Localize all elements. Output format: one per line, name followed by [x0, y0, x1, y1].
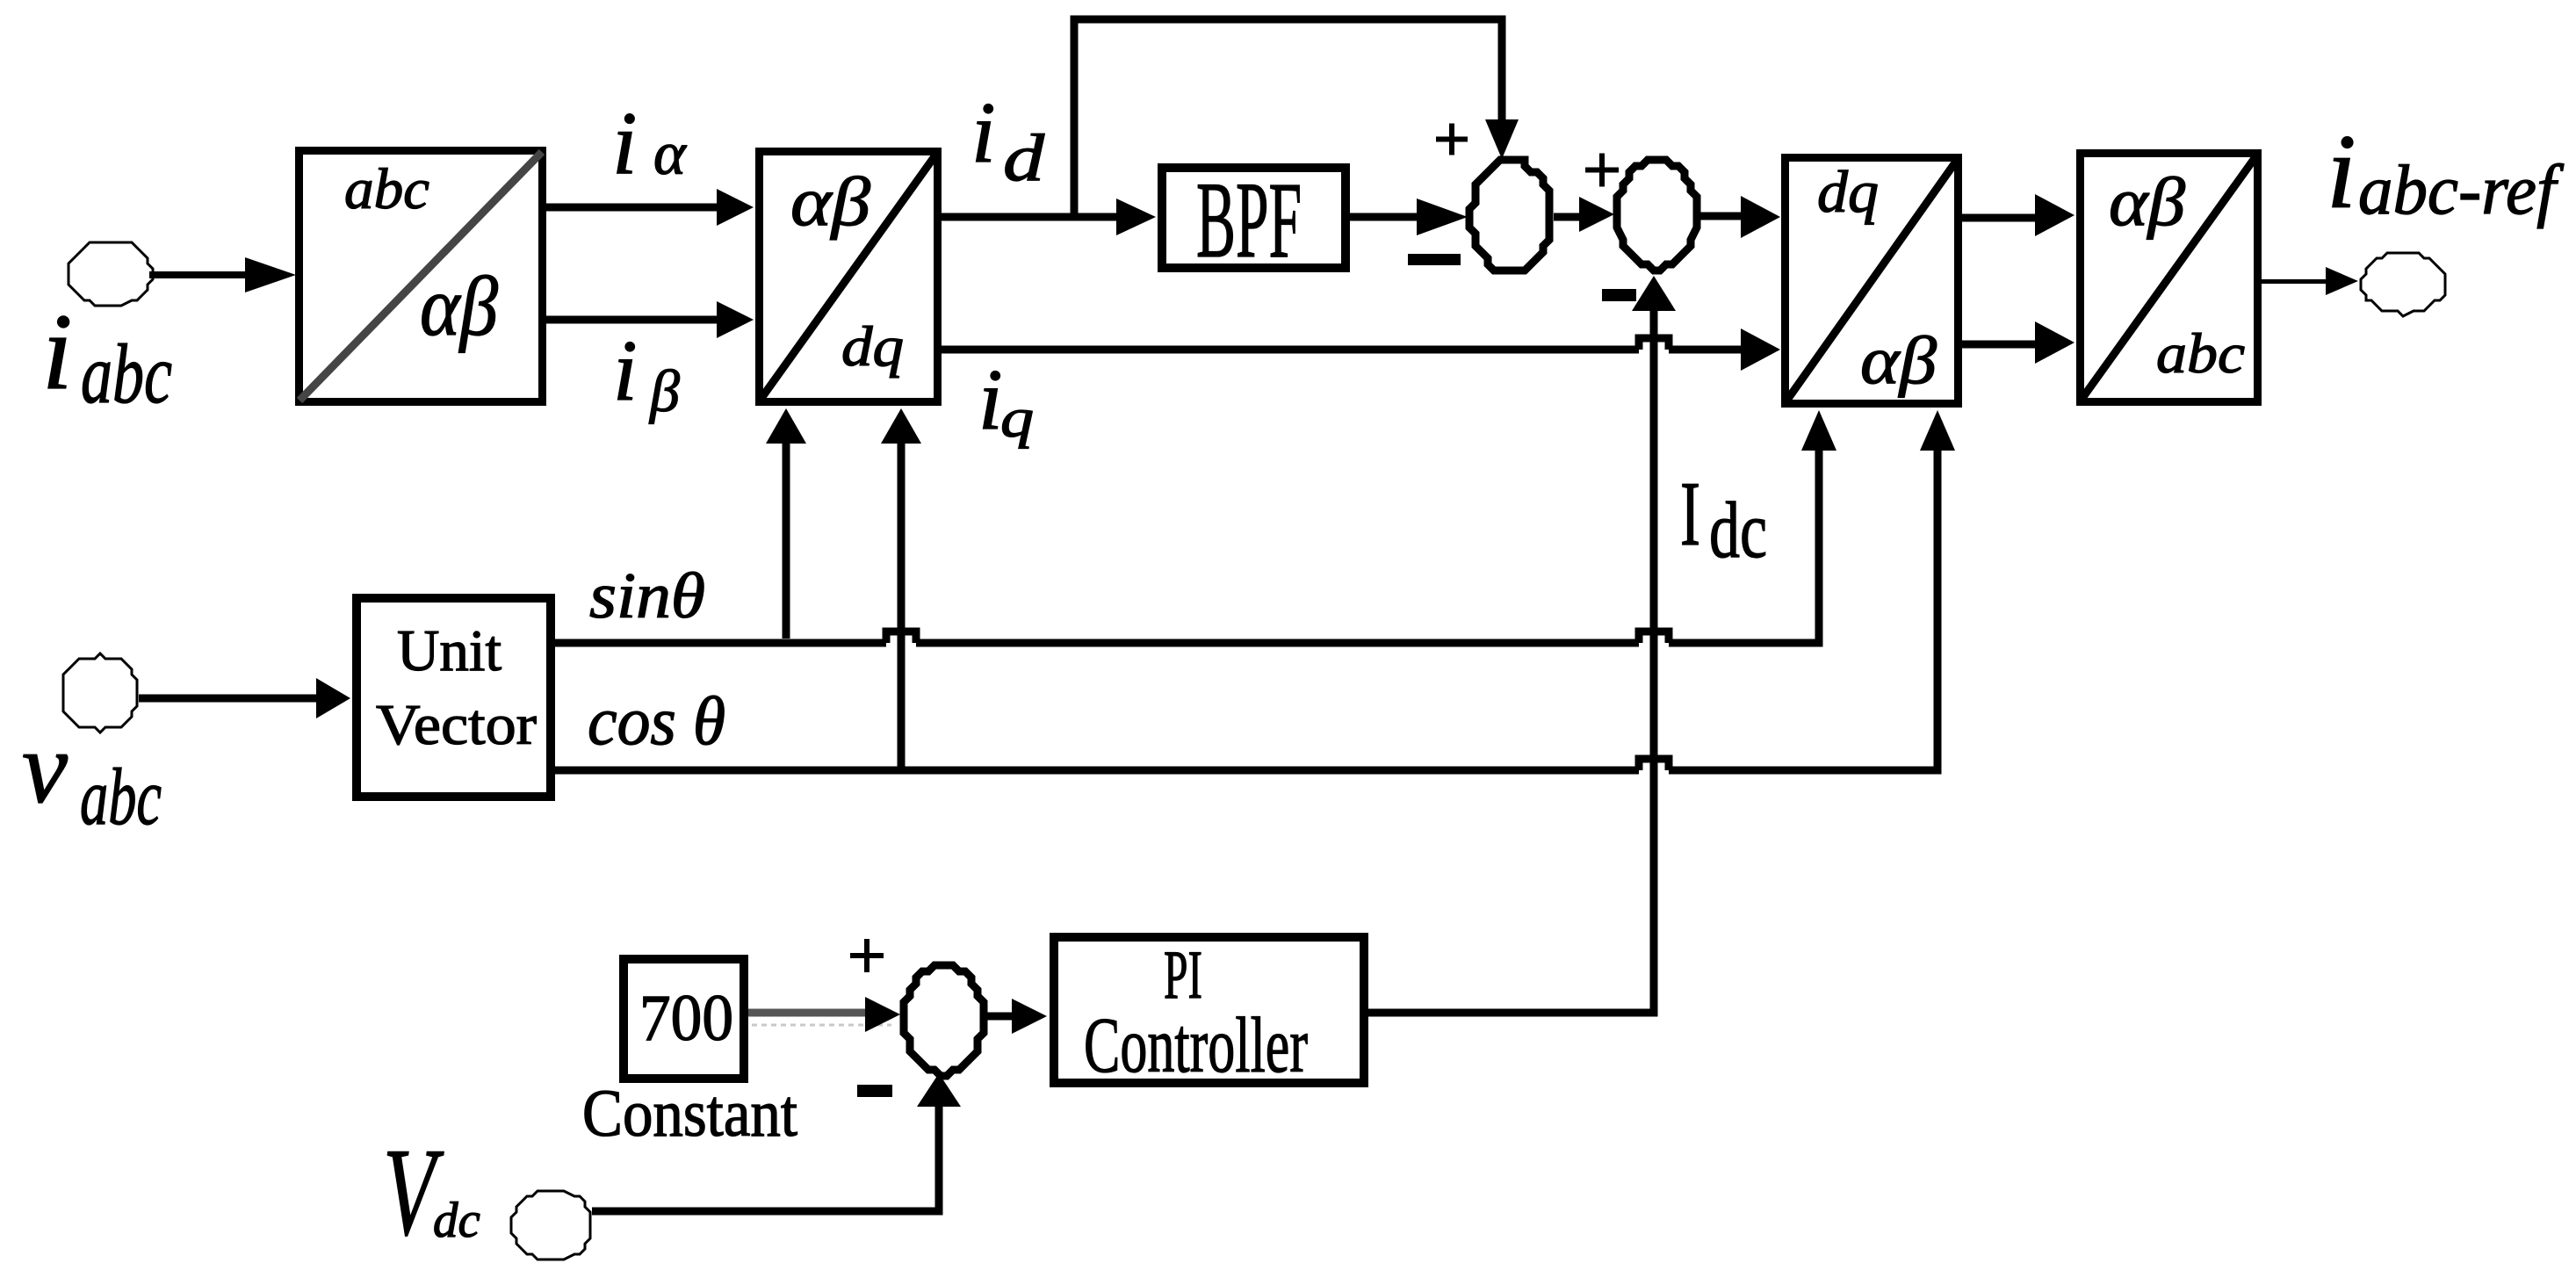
svg-text:dq: dq: [841, 315, 904, 379]
wire V_dc to sum3: [592, 1107, 939, 1211]
svg-text:Unit: Unit: [397, 618, 502, 683]
svg-text:dc: dc: [433, 1193, 480, 1248]
output terminal i_abc-ref: [2361, 253, 2445, 316]
wire sum3 to PI controller: [985, 1013, 1017, 1021]
svg-text:abc: abc: [2156, 322, 2245, 386]
arrowhead cos riser into ab/dq: [881, 408, 921, 444]
block BPF: [1162, 168, 1346, 268]
svg-text:i: i: [612, 94, 637, 193]
wire 700 to sum3 (gray): [748, 1009, 871, 1017]
arrowhead into PI controller: [1012, 999, 1047, 1034]
arrowhead cos riser into dq/ab: [1920, 410, 1955, 451]
faint dotted artifact line: [752, 1024, 891, 1027]
crossover hop i_q over Idc: [1639, 338, 1669, 350]
svg-text:i: i: [971, 85, 996, 181]
input terminal V_dc: [511, 1191, 590, 1259]
wire BPF to sum1: [1350, 213, 1423, 221]
arrowhead into sum1 left: [1417, 198, 1468, 235]
wire v_abc terminal to Unit Vector: [139, 695, 325, 703]
arrowhead into BPF: [1116, 198, 1156, 235]
arrowhead V_dc up into sum3: [917, 1073, 961, 1107]
wire i_alpha: [546, 204, 729, 212]
plus sign sum1: [1436, 137, 1468, 142]
arrowhead i_q into dq/ab bottom: [1741, 328, 1780, 371]
arrowhead into sum3 left: [865, 997, 900, 1032]
arrowhead into dq/ab top: [1741, 196, 1780, 238]
summing junction sum2: [1617, 160, 1697, 271]
block alphabeta->dq transform: [760, 152, 938, 402]
input terminal i_abc: [69, 242, 153, 306]
wire cos theta: [555, 767, 1639, 775]
wire ab/abc to output terminal: [2262, 279, 2332, 284]
crossover hop cos over Idc: [1639, 759, 1669, 770]
svg-text:abc: abc: [80, 752, 162, 841]
wire i_q long line: [942, 346, 1639, 354]
diagonal of abc->alphabeta (gray): [299, 152, 542, 401]
svg-text:αβ: αβ: [1860, 322, 1937, 398]
svg-text:α: α: [653, 120, 687, 188]
crossover hop sin over cos riser: [886, 631, 916, 643]
wire sum2 to dq/ab block: [1700, 213, 1748, 220]
svg-text:d: d: [1003, 121, 1045, 195]
svg-text:i: i: [42, 292, 72, 412]
svg-text:αβ: αβ: [2109, 163, 2185, 240]
arrowhead into output terminal: [2326, 267, 2358, 295]
minus sign sum3: [857, 1085, 892, 1097]
block alphabeta->abc transform: [2081, 154, 2258, 402]
svg-text:αβ: αβ: [790, 164, 871, 241]
arrowhead sin riser into dq/ab: [1801, 410, 1836, 451]
arrowhead Idc up into sum2: [1632, 276, 1676, 311]
arrowhead i_beta: [717, 301, 754, 338]
svg-text:abc: abc: [81, 327, 172, 421]
block abc->alphabeta transform: [299, 151, 543, 402]
svg-text:abc: abc: [344, 157, 429, 221]
svg-text:dq: dq: [1817, 158, 1879, 225]
diagonal of alphabeta->abc: [2081, 155, 2257, 401]
svg-text:700: 700: [639, 982, 733, 1055]
wire i_beta: [546, 316, 729, 324]
wire sin riser to ab/dq block: [783, 439, 790, 639]
wire cos riser to ab/dq block: [898, 439, 906, 767]
wire PI output / Idc: [1368, 307, 1654, 1013]
summing junction sum1: [1469, 160, 1549, 271]
plus sign sum3: [850, 953, 884, 958]
arrowhead i_alpha: [717, 189, 754, 226]
svg-text:PI: PI: [1164, 936, 1202, 1013]
arrowhead into abc/ab block: [245, 257, 296, 292]
wire i_abc terminal to abc/ab block: [149, 271, 255, 278]
arrowhead feedback down into sum1: [1485, 119, 1519, 159]
input terminal v_abc: [63, 653, 137, 733]
wire i_d feedback loop: [1074, 19, 1502, 220]
minus sign sum2: [1602, 289, 1636, 301]
crossover hop sin over Idc: [1639, 631, 1669, 643]
svg-text:v: v: [22, 711, 68, 825]
svg-text:BPF: BPF: [1196, 160, 1302, 280]
diagonal of alphabeta->dq: [760, 153, 937, 401]
wire dq/ab to ab/abc bottom: [1962, 341, 2046, 349]
wire i_d output: [942, 213, 1129, 221]
svg-text:i: i: [2327, 113, 2356, 231]
diagonal of dq->alphabeta: [1786, 159, 1958, 402]
block Unit Vector: [357, 598, 551, 797]
plus sign sum2: [1585, 168, 1619, 173]
svg-text:Vector: Vector: [376, 693, 537, 757]
svg-text:Controller: Controller: [1084, 1002, 1308, 1089]
arrowhead into ab/abc bottom: [2035, 321, 2075, 364]
svg-text:αβ: αβ: [420, 259, 498, 353]
block dq->alphabeta transform: [1786, 158, 1959, 404]
block constant 700: [624, 959, 744, 1079]
minus sign sum1: [1408, 254, 1461, 265]
arrowhead into Unit Vector: [316, 678, 350, 718]
svg-text:sinθ: sinθ: [589, 560, 705, 632]
svg-text:Constant: Constant: [582, 1077, 797, 1151]
svg-text:i: i: [978, 352, 1003, 448]
svg-text:q: q: [1000, 387, 1034, 449]
svg-text:dc: dc: [1709, 486, 1767, 574]
arrowhead into sum2 left: [1579, 197, 1614, 232]
svg-text:i: i: [613, 323, 638, 419]
wire dq/ab to ab/abc top: [1962, 214, 2046, 222]
wire sum1 to sum2: [1554, 213, 1583, 221]
arrowhead into ab/abc top: [2035, 194, 2075, 236]
svg-text:β: β: [648, 357, 680, 424]
summing junction sum3: [904, 965, 984, 1076]
svg-text:I: I: [1680, 462, 1700, 565]
wire sin theta: [555, 639, 886, 647]
svg-text:abc-ref: abc-ref: [2358, 152, 2565, 229]
svg-text:cos θ: cos θ: [588, 682, 725, 759]
arrowhead sin riser into ab/dq: [766, 408, 806, 444]
block PI controller: [1054, 937, 1364, 1083]
